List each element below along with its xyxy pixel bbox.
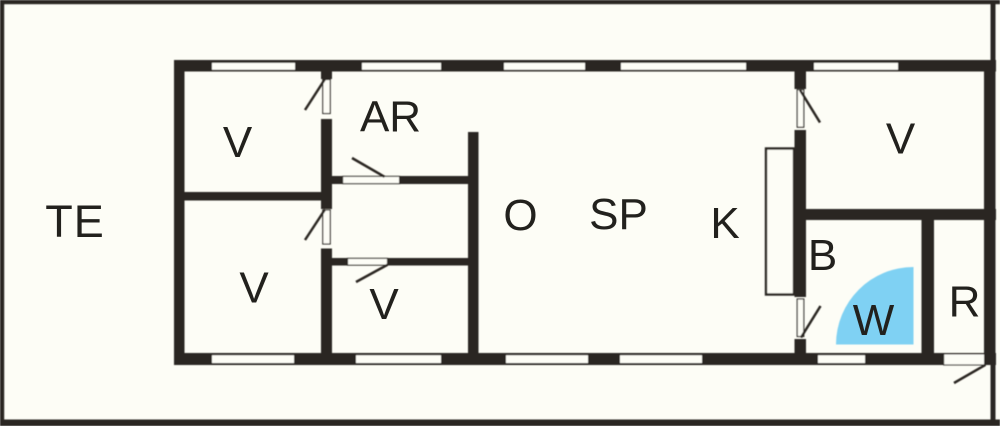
door swing D2 [305, 210, 325, 241]
door leaf D4 [348, 258, 388, 265]
exterior wall left [174, 60, 185, 365]
svg-text:V: V [223, 118, 253, 167]
door leaf D1 [323, 80, 330, 114]
door swing R entrance [954, 365, 986, 383]
border frame right [991, 0, 996, 426]
svg-text:W: W [853, 296, 895, 345]
exterior wall bottom [174, 353, 996, 365]
window top 3 [504, 63, 585, 70]
svg-text:R: R [949, 278, 981, 327]
interior wall small V top left piece [332, 258, 347, 266]
window top 1 [212, 63, 295, 70]
door swing D1 [305, 78, 326, 111]
svg-text:O: O [503, 191, 537, 240]
window top 2 [362, 63, 441, 70]
door swing D4 [356, 265, 388, 282]
entrance door gap R [943, 354, 985, 365]
door leaf D2 [323, 210, 330, 244]
door leaf D3 [343, 176, 400, 183]
exterior wall right [984, 60, 996, 365]
entrance door leaf R outline [944, 354, 985, 365]
interior wall vertical x800 lower stub [795, 339, 807, 365]
interior wall small V top right piece [388, 258, 473, 266]
door leaf D5 [797, 90, 804, 128]
window top 4 [621, 63, 746, 70]
door leaf D6 [797, 299, 804, 337]
svg-text:V: V [886, 115, 916, 164]
window bottom 3 [506, 355, 588, 363]
interior wall vertical x326 middle [321, 119, 332, 209]
interior wall divider left V rooms [178, 192, 325, 201]
door swing D3 [352, 158, 385, 177]
border frame left [0, 0, 4, 426]
window bottom 4 [620, 355, 702, 363]
interior wall vertical x800 upper stub [795, 70, 807, 89]
window bottom 2 [356, 355, 441, 363]
door swing D6 [801, 306, 821, 338]
window bottom 1 [212, 355, 294, 363]
chimney K [766, 149, 794, 295]
interior wall vertical x326 lower [321, 249, 332, 355]
svg-text:K: K [710, 199, 739, 248]
svg-text:TE: TE [45, 196, 105, 247]
interior wall AR bottom left piece [332, 176, 342, 184]
shower quarter circle W [836, 267, 914, 345]
interior wall horizontal V/B divider [795, 209, 997, 220]
interior wall vertical x326 upper stub [321, 70, 332, 79]
svg-text:B: B [808, 231, 837, 280]
exterior wall top [174, 60, 996, 72]
window top 5 [814, 63, 898, 70]
interior wall AR bottom right piece [400, 176, 473, 184]
border frame top [0, 0, 1000, 4]
door swing D5 [800, 90, 820, 123]
interior wall vertical x473 [468, 132, 479, 365]
window bottom 5 [818, 355, 865, 363]
svg-text:V: V [239, 264, 269, 313]
interior wall vertical W/R divider [922, 220, 935, 365]
svg-text:V: V [369, 280, 399, 329]
svg-text:SP: SP [589, 190, 648, 239]
interior wall vertical x800 middle [795, 130, 807, 297]
svg-text:AR: AR [360, 92, 421, 141]
border frame bottom [0, 420, 1000, 426]
